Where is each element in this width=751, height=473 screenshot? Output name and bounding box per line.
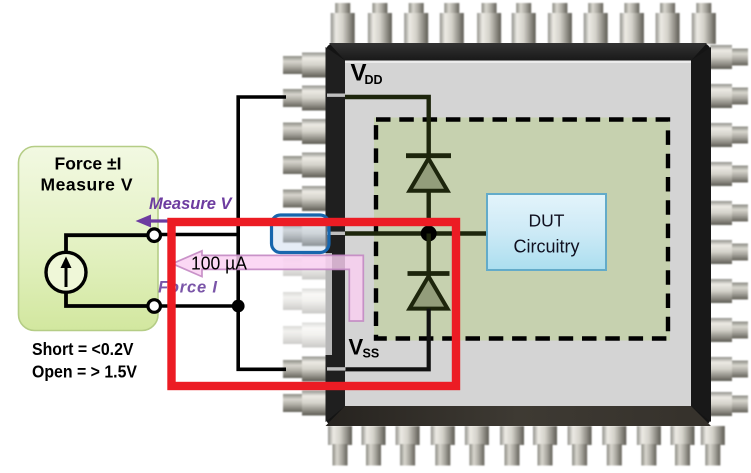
arrow: 100 µA test current (pink bent arrow) xyxy=(172,251,363,321)
svg-text:Open = > 1.5V: Open = > 1.5V xyxy=(32,362,137,382)
DUT circuitry block xyxy=(487,194,606,270)
node: pad junction xyxy=(421,226,437,242)
body bottom bevel face xyxy=(326,406,712,426)
left pin column xyxy=(283,53,327,416)
arrow: measure direction xyxy=(136,215,239,228)
svg-text:Circuitry: Circuitry xyxy=(514,237,580,257)
wire: VSS net inside chip xyxy=(327,309,429,371)
svg-text:100 µA: 100 µA xyxy=(191,253,248,274)
inner die plate xyxy=(345,61,691,407)
wire: Force I lead to bus junction xyxy=(158,304,238,308)
svg-text:Short = <0.2V: Short = <0.2V xyxy=(32,339,134,359)
svg-text:Measure V: Measure V xyxy=(41,175,133,195)
svg-text:SS: SS xyxy=(363,347,380,361)
body left bevel face xyxy=(326,47,346,422)
chip body xyxy=(326,43,712,426)
node: bus / Force I junction xyxy=(232,300,245,313)
bottom pin row xyxy=(328,426,725,466)
svg-text:Force ±I: Force ±I xyxy=(55,154,122,174)
diode D2 (VSS to pad) xyxy=(408,234,450,309)
wire: VDD net inside chip xyxy=(327,94,429,156)
svg-text:Force I: Force I xyxy=(158,279,217,297)
diode D1 (pad to VDD) xyxy=(406,156,451,234)
svg-text:DUT: DUT xyxy=(529,211,565,231)
label: Short/Open thresholds xyxy=(32,339,137,382)
top pin row xyxy=(331,3,716,44)
terminal: Measure V xyxy=(148,229,161,242)
svg-text:Measure V: Measure V xyxy=(149,195,234,213)
IC package U1 (QFP) xyxy=(283,3,748,466)
svg-text:DD: DD xyxy=(365,73,383,87)
VSS label xyxy=(349,335,380,361)
white fade over left pins near annotations xyxy=(264,253,332,355)
protection-circuit dashed region xyxy=(374,118,670,341)
body right bevel face xyxy=(691,47,711,422)
svg-text:V: V xyxy=(349,335,364,360)
wire: external bus (VDD/VSS tie) xyxy=(238,97,286,369)
current source I1 xyxy=(46,252,86,292)
VDD label xyxy=(351,60,383,88)
wire: pad node to DUT circuitry xyxy=(327,232,487,235)
highlight: DUT pin under test xyxy=(272,215,330,253)
SMU source box (Force/Measure) xyxy=(19,147,159,331)
annotation: red test-loop rectangle xyxy=(172,222,457,386)
wire: SMU loop xyxy=(66,235,150,306)
right pin column xyxy=(710,45,748,416)
wire: Measure V lead to bus xyxy=(158,233,240,237)
terminal: Force I xyxy=(148,300,161,313)
body top bevel face xyxy=(329,43,707,61)
